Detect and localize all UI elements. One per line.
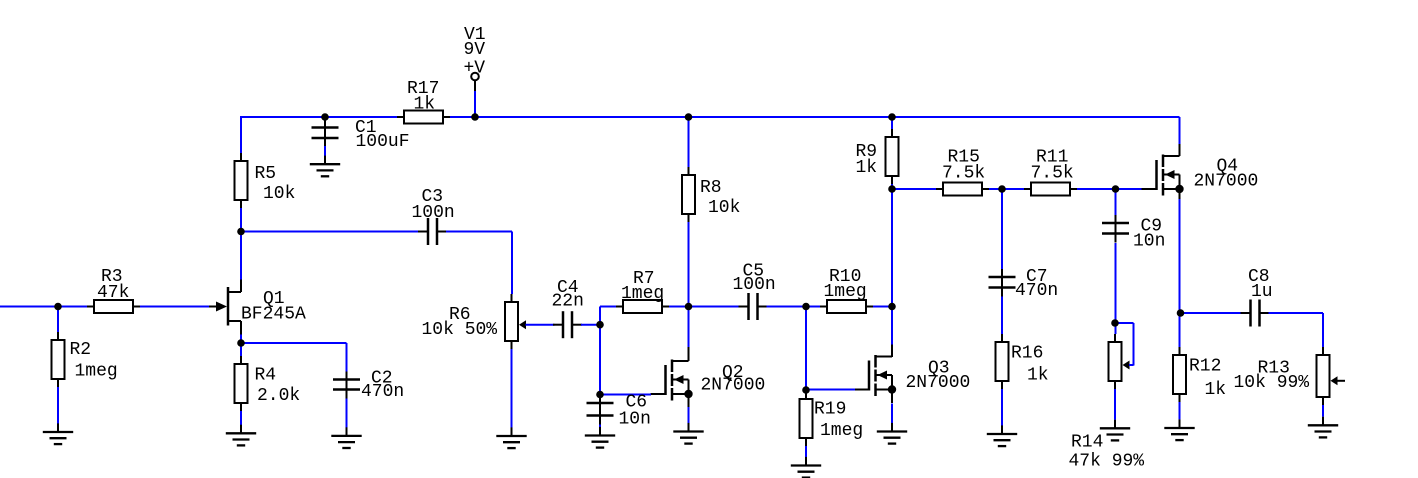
svg-text:2.0k: 2.0k <box>257 386 300 406</box>
svg-text:R14: R14 <box>1071 433 1103 453</box>
svg-text:R16: R16 <box>1011 344 1043 364</box>
svg-text:R5: R5 <box>255 164 277 184</box>
svg-text:100n: 100n <box>733 275 776 295</box>
svg-text:1meg: 1meg <box>621 284 664 304</box>
svg-text:47k 99%: 47k 99% <box>1069 452 1145 472</box>
svg-text:10k 99%: 10k 99% <box>1234 373 1310 393</box>
svg-text:10n: 10n <box>1133 232 1165 252</box>
svg-text:+V: +V <box>464 59 486 79</box>
svg-text:R12: R12 <box>1189 357 1221 377</box>
svg-text:100n: 100n <box>412 203 455 223</box>
svg-text:2N7000: 2N7000 <box>701 376 766 396</box>
svg-text:1k: 1k <box>414 95 436 115</box>
svg-text:10k 50%: 10k 50% <box>422 320 498 340</box>
svg-text:R4: R4 <box>255 366 277 386</box>
svg-text:1k: 1k <box>856 158 878 178</box>
svg-text:R2: R2 <box>70 340 92 360</box>
svg-text:470n: 470n <box>1015 281 1058 301</box>
svg-text:47k: 47k <box>97 283 129 303</box>
svg-text:100uF: 100uF <box>356 132 410 152</box>
svg-text:BF245A: BF245A <box>241 305 306 325</box>
svg-text:1meg: 1meg <box>75 362 118 382</box>
svg-text:R8: R8 <box>700 178 722 198</box>
svg-text:1k: 1k <box>1027 366 1049 386</box>
svg-text:10n: 10n <box>619 410 651 430</box>
svg-text:2N7000: 2N7000 <box>1194 172 1259 192</box>
svg-text:22n: 22n <box>552 292 584 312</box>
svg-text:1meg: 1meg <box>824 282 867 302</box>
svg-text:7.5k: 7.5k <box>942 164 985 184</box>
svg-text:9V: 9V <box>464 40 486 60</box>
svg-text:1k: 1k <box>1205 380 1227 400</box>
svg-text:7.5k: 7.5k <box>1031 164 1074 184</box>
svg-text:1u: 1u <box>1251 282 1273 302</box>
svg-text:10k: 10k <box>263 184 295 204</box>
svg-text:1meg: 1meg <box>820 421 863 441</box>
svg-text:2N7000: 2N7000 <box>906 373 971 393</box>
svg-text:10k: 10k <box>708 198 740 218</box>
svg-text:470n: 470n <box>361 382 404 402</box>
svg-text:R19: R19 <box>814 400 846 420</box>
